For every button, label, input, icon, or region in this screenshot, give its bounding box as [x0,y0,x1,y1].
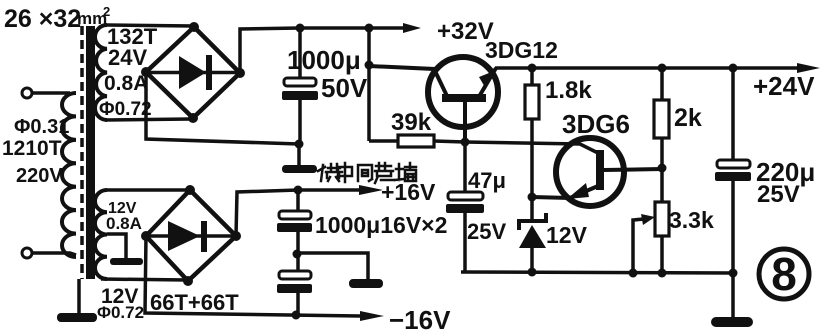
wire +16V arrow [294,185,384,195]
svg-text:−16V: −16V [389,305,451,334]
capacitor C3 1000u 16V (upper of pair) [277,190,312,254]
node Q2 emitter junction [528,193,537,202]
node capacitor midpoint [293,250,302,259]
svg-text:50V: 50V [321,73,368,103]
wire to Q1 collector [369,66,447,96]
capacitor C1 1000u 50V [282,28,318,143]
resistor R4 3.3k (adjustable) [655,168,669,273]
bridge rectifier D2 (diamond) [141,185,241,286]
transistor Q2 3DG6 [532,138,662,206]
wire secondary1 top lead [107,25,194,26]
svg-text:+24V: +24V [753,71,815,101]
wire ground bus [461,268,738,278]
ground (main filter) [282,165,317,173]
resistor R2 1.8k [525,68,539,197]
transformer T1 primary winding 1210T 220V [62,93,76,257]
resistor R3 2k [654,68,669,168]
wire [32,91,70,95]
label (Chinese) gong zhong jian sheng qiang [318,163,416,183]
svg-text:1000μ: 1000μ [287,45,361,75]
node Q1 base junction [461,138,470,147]
capacitor C4 1000u 16V (lower of pair) [277,254,312,316]
ground (midpoint) [349,279,383,288]
transformer T1 core [82,26,95,279]
wire secondary2 center tap [107,234,126,258]
diode inside D2 [146,221,236,252]
capacitor C2 47u 25V [446,142,484,272]
wire bridge D1 plus up to +32V rail [240,28,300,73]
svg-text:1.8k: 1.8k [545,77,592,104]
svg-text:Φ0.72: Φ0.72 [99,99,152,120]
svg-text:25V: 25V [757,181,800,208]
label core size 26x32mm2 [4,4,110,33]
svg-text:Φ0.72: Φ0.72 [97,303,144,322]
wire +24V rail [495,63,820,73]
resistor R1 39k [369,135,465,147]
svg-text:25V: 25V [467,219,506,244]
wire [32,253,76,255]
wire secondary1 bottom lead [105,119,191,120]
svg-text:220V: 220V [16,165,63,187]
node divider junction [658,164,667,173]
svg-text:66T+66T: 66T+66T [150,290,239,315]
transformer T1 secondary winding 132T 24V [95,25,107,120]
transformer T1 secondary winding 66T+66T 12V [95,190,107,279]
svg-text:3DG6: 3DG6 [562,109,630,139]
svg-text:12V: 12V [546,222,588,248]
zener diode DW 12V [519,197,546,273]
wire secondary2 bottom lead [101,279,187,280]
ground (chassis) [57,313,97,322]
page number 8 (circled) [759,248,809,300]
wiper arrow of R4 [633,214,655,273]
svg-text:3DG12: 3DG12 [485,37,558,63]
svg-text:0.8A: 0.8A [106,214,142,233]
capacitor C5 labels [756,157,815,208]
svg-text:8: 8 [771,248,797,300]
svg-text:1210T: 1210T [2,137,62,160]
transformer T1 primary terminal top [22,88,32,98]
svg-text:39k: 39k [391,109,432,136]
transformer T1 primary terminal bottom [22,248,32,258]
svg-text:1000μ16V×2: 1000μ16V×2 [315,212,447,238]
svg-text:0.8A: 0.8A [104,72,148,95]
wire core to chassis ground [77,279,81,313]
svg-text:2: 2 [103,4,110,19]
wire midpoint to ground [297,253,368,279]
svg-text:47μ: 47μ [468,168,506,193]
svg-text:+16V: +16V [381,179,436,205]
svg-text:3.3k: 3.3k [669,207,714,233]
svg-text:26 ×32: 26 ×32 [4,5,81,33]
wire -16V arrow [292,311,385,322]
wire to ground [297,144,301,165]
wire base node to Q2 collector [465,142,598,153]
svg-text:Φ0.31: Φ0.31 [14,116,69,138]
ground (output common) [711,317,753,327]
wire secondary2 top lead [107,188,190,192]
wire bridge D1 minus to ground node [146,72,299,144]
capacitor C2 labels [467,168,506,244]
svg-text:24V: 24V [108,45,147,70]
transistor Q1 3DG12 [428,57,498,142]
bridge rectifier D1 (diamond) [141,22,245,123]
wire +32V rail [296,23,422,33]
wire bridge D2 plus up to +16V [236,190,298,236]
wire +32V down feed [365,28,374,141]
svg-text:2k: 2k [674,104,702,132]
wire bridge D2 minus down to -16V rail [145,236,360,316]
capacitor C5 220u 25V [715,68,751,317]
ground (center tap) [110,258,143,265]
diode inside D1 [146,55,240,90]
node ground junction [295,140,304,149]
capacitor C1 value label [287,45,368,103]
